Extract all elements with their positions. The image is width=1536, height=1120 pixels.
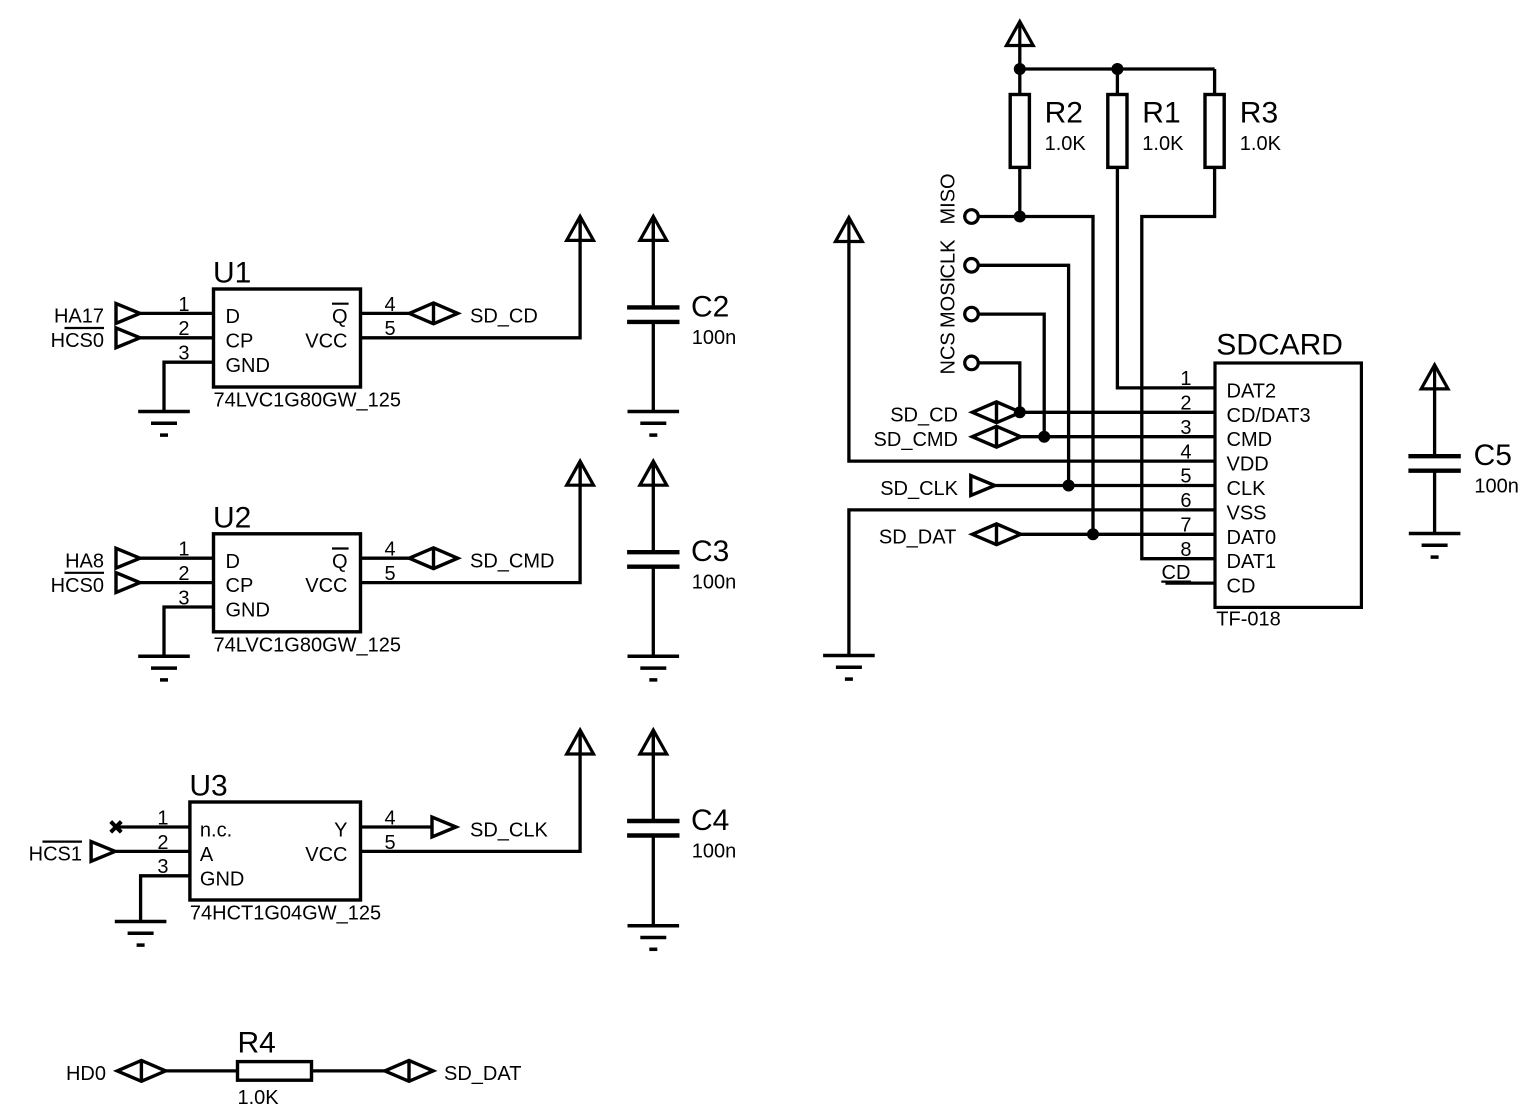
svg-text:SD_CMD: SD_CMD [874, 429, 958, 451]
svg-text:C2: C2 [691, 290, 729, 323]
inverter U3 body [189, 770, 381, 925]
svg-text:C5: C5 [1474, 439, 1512, 472]
input port arrow HA8 [116, 548, 140, 568]
svg-text:DAT0: DAT0 [1227, 527, 1277, 549]
resistor R2 [1010, 95, 1086, 168]
input port arrow HCS1 [91, 842, 115, 862]
svg-text:SD_CMD: SD_CMD [470, 551, 554, 573]
wire VCC to C3 [652, 462, 655, 550]
wire HD0 to R4 [165, 1069, 237, 1072]
wire VCC to C5 [1433, 389, 1436, 454]
flip-flop U1 body [213, 257, 401, 412]
ground (C5) [1409, 534, 1461, 558]
junction MISO / R2 [1014, 211, 1026, 223]
svg-text:1.0K: 1.0K [1240, 133, 1282, 155]
svg-text:2: 2 [178, 563, 189, 585]
no-connect X on U3 pin 1 [111, 822, 122, 833]
bidirectional port SD_DAT (card) [972, 524, 1020, 545]
svg-text:SD_DAT: SD_DAT [444, 1063, 521, 1085]
wire C4 to ground [652, 836, 655, 926]
svg-text:2: 2 [157, 832, 168, 854]
svg-text:HCS0: HCS0 [51, 575, 104, 597]
overline over CS0 of HCS0 [65, 572, 105, 574]
wire HCS1 to U3 pin 2 [115, 850, 190, 853]
svg-text:CP: CP [226, 330, 254, 352]
wire U2 pin 5 (VCC) to power [361, 462, 581, 582]
svg-text:74HCT1G04GW_125: 74HCT1G04GW_125 [190, 903, 381, 925]
svg-text:1: 1 [157, 807, 168, 829]
overline over CS0 of HCS0 [65, 327, 105, 329]
svg-text:1.0K: 1.0K [1142, 133, 1184, 155]
svg-text:CD/DAT3: CD/DAT3 [1227, 405, 1311, 427]
wire CD pin stub [1165, 581, 1215, 584]
wire CLK to CLK net [978, 265, 1069, 485]
wire SDCARD pin 6 (VSS) to ground [849, 510, 1215, 656]
power flag VCC (U1 VCC) [567, 216, 594, 240]
capacitor C2 [627, 290, 736, 349]
power flag VCC (C2) [640, 216, 667, 240]
svg-text:4: 4 [385, 807, 396, 829]
svg-text:HCS1: HCS1 [29, 844, 82, 866]
svg-text:6: 6 [1180, 490, 1191, 512]
svg-text:TF-018: TF-018 [1216, 608, 1280, 630]
capacitor C5 [1408, 439, 1519, 498]
input port arrow HCS0 [116, 328, 140, 348]
wire VCC arrow to rail [1018, 46, 1021, 70]
svg-text:SD_DAT: SD_DAT [879, 527, 956, 549]
connector pin circle MISO [965, 210, 979, 224]
svg-text:DAT1: DAT1 [1227, 551, 1277, 573]
input port arrow HA17 [116, 304, 140, 324]
svg-text:GND: GND [200, 868, 244, 890]
capacitor C4 [627, 804, 736, 863]
wire U3 pin 4 (Y) to port SD_CLK [361, 825, 433, 828]
ground (C3) [628, 656, 680, 680]
input port arrow HCS0 [116, 573, 140, 593]
svg-text:R3: R3 [1240, 96, 1278, 129]
wire SD_CMD to SDCARD pin 3 [1020, 435, 1215, 438]
resistor R3 [1205, 95, 1282, 168]
svg-text:5: 5 [385, 318, 396, 340]
svg-text:CD: CD [1227, 576, 1256, 598]
svg-text:2: 2 [178, 318, 189, 340]
wire MISO to DAT0 net [978, 217, 1093, 535]
wire C3 to ground [652, 567, 655, 657]
wire HA17 to U1 pin 1 [140, 312, 214, 315]
ground (U2) [138, 656, 190, 680]
ground (C2) [628, 412, 680, 436]
bidirectional port SD_CMD [409, 548, 457, 569]
junction CLK [1063, 480, 1075, 492]
svg-text:100n: 100n [692, 327, 737, 349]
svg-text:GND: GND [226, 600, 270, 622]
svg-text:GND: GND [226, 355, 270, 377]
svg-text:DAT2: DAT2 [1227, 380, 1277, 402]
bidirectional port HD0 [117, 1061, 165, 1082]
wire U2 pin 4 (Q) to port SD_CMD [361, 557, 410, 560]
svg-text:R2: R2 [1045, 96, 1083, 129]
input port arrow SD_CLK (card) [971, 476, 995, 496]
svg-text:SD_CD: SD_CD [470, 306, 538, 328]
svg-text:1: 1 [178, 294, 189, 316]
wire VCC rail [1020, 67, 1215, 70]
svg-text:U2: U2 [213, 501, 251, 534]
svg-text:CLK: CLK [1227, 478, 1267, 500]
svg-text:R4: R4 [238, 1026, 276, 1059]
svg-text:U1: U1 [213, 257, 251, 290]
overline over CS1 of HCS1 [43, 840, 83, 842]
svg-text:7: 7 [1180, 515, 1191, 537]
svg-text:VCC: VCC [305, 844, 347, 866]
svg-text:SD_CLK: SD_CLK [880, 478, 958, 500]
wire R2 to MISO [1018, 167, 1021, 216]
power flag VCC (pull-up rail) [1006, 22, 1033, 46]
svg-text:1.0K: 1.0K [238, 1087, 280, 1109]
ground (U3) [115, 922, 167, 946]
bidirectional port SD_CD (card) [972, 402, 1020, 423]
svg-text:3: 3 [157, 856, 168, 878]
wire SD_CD to SDCARD pin 2 [1020, 411, 1215, 414]
svg-text:HA17: HA17 [54, 306, 104, 328]
svg-text:Y: Y [334, 820, 347, 842]
svg-text:2: 2 [1180, 393, 1191, 415]
svg-text:SD_CD: SD_CD [890, 405, 958, 427]
ground (U1) [138, 412, 190, 436]
svg-text:A: A [200, 844, 214, 866]
wire U1 pin 3 (GND) to ground [164, 362, 214, 411]
svg-text:74LVC1G80GW_125: 74LVC1G80GW_125 [214, 634, 402, 656]
wire R1 to SDCARD pin 1 (DAT2) [1117, 167, 1215, 388]
wire VCC to SDCARD pin 4 (VDD) [849, 242, 1215, 462]
svg-text:100n: 100n [1474, 476, 1519, 498]
wire rail to R2 [1018, 69, 1021, 95]
underline of CD pin label [1161, 580, 1191, 582]
svg-text:4: 4 [385, 294, 396, 316]
wire R3 to SDCARD pin 8 (DAT1) [1142, 167, 1215, 558]
svg-text:HA8: HA8 [65, 551, 104, 573]
svg-text:D: D [226, 551, 240, 573]
svg-text:HCS0: HCS0 [51, 330, 104, 352]
output port arrow SD_CLK [432, 817, 456, 837]
svg-text:MOSI: MOSI [938, 277, 960, 328]
svg-text:VDD: VDD [1227, 454, 1269, 476]
svg-text:C3: C3 [691, 535, 729, 568]
svg-text:3: 3 [178, 587, 189, 609]
svg-text:100n: 100n [692, 841, 737, 863]
wire U1 pin 5 (VCC) to power [361, 217, 581, 337]
wire U3 pin 5 (VCC) to power [361, 731, 581, 851]
wire VCC to C2 [652, 217, 655, 305]
wire MOSI to CMD net [978, 314, 1044, 437]
junction at R1 top [1111, 63, 1123, 75]
junction at R2 top [1014, 63, 1026, 75]
svg-text:1.0K: 1.0K [1045, 133, 1087, 155]
wire rail to R3 [1213, 69, 1216, 95]
svg-text:C4: C4 [691, 804, 729, 837]
svg-text:5: 5 [385, 832, 396, 854]
ground (VSS) [823, 656, 875, 680]
svg-text:MISO: MISO [938, 173, 960, 224]
svg-text:5: 5 [385, 563, 396, 585]
svg-text:D: D [226, 306, 240, 328]
wire U3 pin 3 (GND) to ground [141, 876, 190, 922]
power flag VCC (VDD) [836, 218, 863, 242]
svg-text:5: 5 [1180, 466, 1191, 488]
junction MOSI / CMD [1038, 431, 1050, 443]
wire U1 pin 4 (Q) to port SD_CD [361, 312, 410, 315]
svg-text:100n: 100n [692, 572, 737, 594]
ground (C4) [628, 926, 680, 950]
svg-text:4: 4 [385, 539, 396, 561]
svg-text:SDCARD: SDCARD [1216, 329, 1343, 362]
svg-text:HD0: HD0 [66, 1063, 106, 1085]
svg-text:4: 4 [1180, 441, 1191, 463]
bidirectional port SD_DAT [385, 1061, 433, 1082]
wire C5 to ground [1433, 471, 1436, 534]
power flag VCC (C4) [640, 730, 667, 754]
power flag VCC (C3) [640, 461, 667, 485]
wire HCS0 to U2 pin 2 [140, 581, 214, 584]
svg-text:1: 1 [1180, 368, 1191, 390]
svg-text:CMD: CMD [1227, 429, 1273, 451]
bidirectional port SD_CMD (card) [972, 426, 1020, 447]
wire U3 pin 1 stub [116, 825, 190, 828]
svg-text:Q: Q [332, 551, 348, 573]
svg-text:R1: R1 [1142, 96, 1180, 129]
power flag VCC (U2 VCC) [567, 461, 594, 485]
wire HA8 to U2 pin 1 [140, 557, 214, 560]
wire NCS to CD/DAT3 net [978, 363, 1020, 412]
wire SD_DAT to SDCARD pin 7 [1020, 533, 1215, 536]
capacitor C3 [627, 535, 736, 594]
power flag VCC (C5) [1421, 365, 1448, 389]
svg-text:VCC: VCC [305, 575, 347, 597]
connector pin circle CLK [965, 259, 979, 273]
wire VCC to C4 [652, 731, 655, 819]
svg-text:SD_CLK: SD_CLK [470, 819, 548, 841]
SD card connector SDCARD body [1215, 329, 1361, 631]
svg-text:CP: CP [226, 575, 254, 597]
svg-text:VCC: VCC [305, 330, 347, 352]
bidirectional port SD_CD [409, 303, 457, 324]
wire SD_CLK to SDCARD pin 5 [995, 484, 1215, 487]
svg-text:n.c.: n.c. [200, 820, 232, 842]
flip-flop U2 body [213, 501, 401, 656]
svg-text:1: 1 [178, 539, 189, 561]
wire U2 pin 3 (GND) to ground [164, 607, 214, 656]
junction NCS / CD [1014, 406, 1026, 418]
wire R4 to SD_DAT [312, 1069, 386, 1072]
wire rail to R1 [1116, 69, 1119, 95]
svg-text:3: 3 [178, 343, 189, 365]
junction MISO / DAT0 [1087, 528, 1099, 540]
resistor R1 [1108, 95, 1184, 168]
svg-text:3: 3 [1180, 417, 1191, 439]
wire HCS0 to U1 pin 2 [140, 336, 214, 339]
svg-text:Q: Q [332, 306, 348, 328]
connector pin circle MOSI [965, 307, 979, 321]
svg-text:VSS: VSS [1227, 502, 1267, 524]
wire C2 to ground [652, 322, 655, 412]
svg-text:U3: U3 [189, 770, 227, 803]
svg-text:CLK: CLK [938, 239, 960, 279]
power flag VCC (U3 VCC) [567, 730, 594, 754]
svg-text:8: 8 [1180, 539, 1191, 561]
svg-text:NCS: NCS [938, 332, 960, 374]
svg-text:74LVC1G80GW_125: 74LVC1G80GW_125 [214, 390, 402, 412]
resistor R4 [238, 1026, 312, 1109]
connector pin circle NCS [965, 356, 979, 370]
